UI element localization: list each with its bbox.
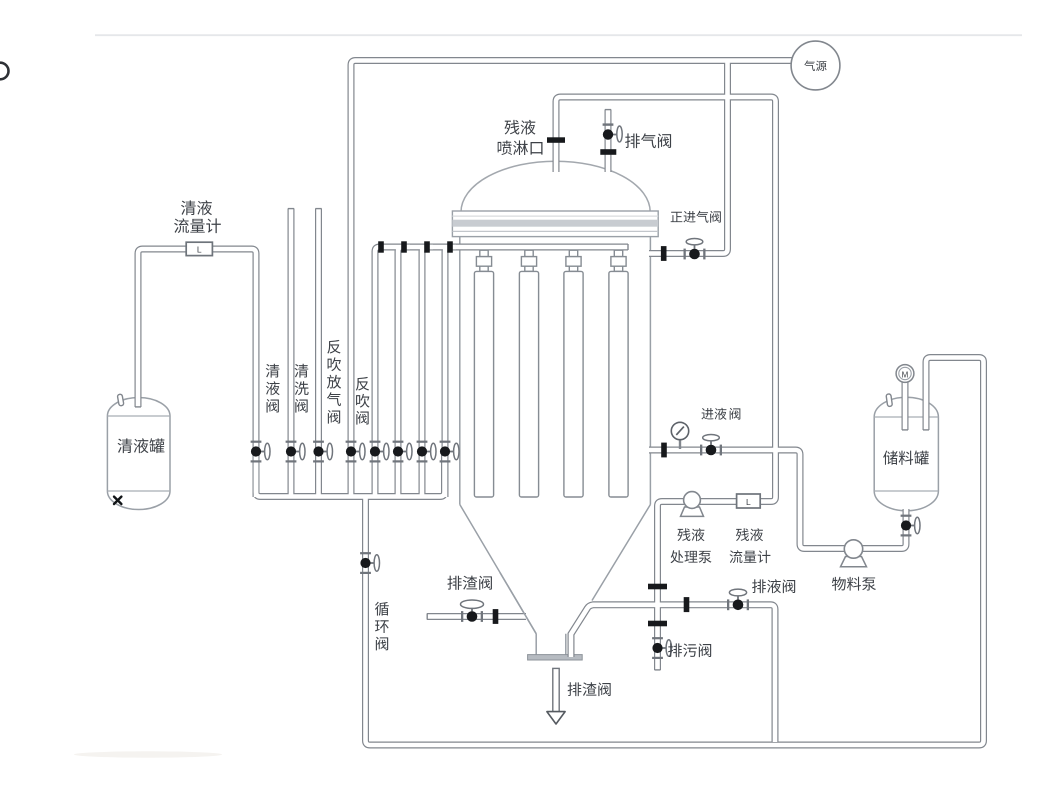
label char 气 (804, 60, 815, 71)
label char 液 (715, 408, 727, 420)
wire: left slag valve pipe (bore) (427, 614, 526, 619)
wire: clear-liquid line tank->flowmeter->valve->manifold (138, 249, 256, 497)
wire: riser col7 (422, 247, 433, 497)
valve: vent valve (313, 441, 332, 463)
label char 处 (670, 550, 683, 563)
label char 污 (683, 643, 697, 656)
label char 液 (521, 120, 536, 135)
label char 气 (641, 133, 656, 148)
label char 料 (847, 577, 861, 591)
label char 阀 (267, 399, 279, 413)
x mark in clear tank (114, 497, 121, 504)
label char 流 (174, 218, 189, 233)
label char 阀 (730, 408, 741, 420)
storage tank (chu liao guan) (874, 397, 938, 511)
wire: spray line + upper loop + residue meter run + blowdown drop (bore) (556, 97, 776, 670)
label char 环 (375, 620, 389, 633)
label char 液 (767, 579, 781, 593)
valve: riser valve 8 (440, 441, 459, 463)
wire: wash riser col2 (288, 209, 295, 498)
label char 阀 (658, 134, 671, 149)
label char 气 (696, 211, 708, 223)
label char 进 (683, 211, 695, 223)
label char 泵 (699, 551, 712, 563)
wire: riser col7 (bore) (422, 247, 433, 497)
label char 理 (684, 551, 697, 563)
wire: backflush riser col4 + top gas line (bore) (351, 61, 800, 498)
label char 阀 (710, 211, 721, 223)
wire: feed line to material pump and storage tank (649, 450, 906, 549)
flange tick: header elbow 3 (424, 241, 430, 252)
wire: wash riser col2 (bore) (289, 209, 294, 498)
valve: blowdown valve (652, 637, 671, 659)
flange tick: slag pipe (493, 609, 499, 624)
label char 料 (899, 451, 913, 465)
flow meter: clear liquid flow meter (186, 242, 212, 255)
label char 物 (832, 577, 846, 591)
label char 液 (197, 200, 212, 215)
partial bullet circle at left edge (0, 63, 9, 80)
label char 阀 (356, 411, 368, 425)
label char 罐 (149, 438, 164, 453)
label char 阀 (376, 637, 388, 651)
valve: circulation valve (360, 552, 379, 574)
wire: filter header + riser col5 (375, 247, 628, 497)
clear liquid tank (qing ye guan) (107, 398, 170, 510)
label char 渣 (463, 576, 477, 590)
label char 反 (327, 340, 340, 354)
label char 排 (625, 133, 640, 148)
flange tick: below exhaust valve (600, 149, 616, 155)
label char 清 (181, 200, 196, 215)
flange tick: feed line (661, 443, 667, 458)
pipe end cap: clear tank dip pipe end (135, 406, 141, 408)
pipe end cap: header end (627, 244, 629, 250)
valve: air inlet valve (684, 239, 706, 260)
vessel bottom outlet flange (528, 655, 583, 660)
label char 清 (266, 364, 280, 378)
label char 阀 (328, 410, 340, 424)
svg-text:L: L (746, 497, 751, 507)
main filter vessel dome (461, 161, 650, 212)
label char 清 (118, 438, 133, 453)
label char 排 (752, 579, 766, 593)
valve: wash valve (286, 441, 305, 463)
wire: backflush vent riser col3 (315, 209, 322, 498)
flange tick: drain line (684, 597, 690, 612)
flow meter: residue flow meter (737, 494, 761, 508)
wire: exhaust valve pipe (bore) (606, 110, 611, 173)
label char 清 (295, 364, 309, 378)
pipe end cap: exhaust top (605, 109, 611, 111)
valve: backflush valve (346, 441, 365, 463)
label char 罐 (914, 451, 929, 465)
wire: spray line + upper loop + residue meter run + blowdown drop (556, 97, 776, 670)
main filter vessel flange (452, 211, 658, 237)
label char 源 (816, 61, 827, 71)
wire: backflush vent riser col3 (bore) (316, 209, 321, 498)
gas source circle (791, 41, 840, 90)
label char 残 (736, 528, 749, 541)
agitator motor M (896, 365, 914, 383)
pipe end cap: tank top line end (923, 429, 929, 431)
flange tick: blowdown cross top (648, 584, 667, 590)
label char 计 (758, 550, 771, 563)
bottom slag discharge arrow (547, 668, 565, 724)
label char 洗 (295, 381, 309, 395)
valve: riser valve 7 (417, 441, 436, 463)
wire: storage tank agitator shaft (bore) (903, 381, 908, 430)
label char 放 (327, 375, 341, 389)
candle filter element 3 (564, 250, 583, 497)
svg-text:L: L (197, 244, 202, 254)
wire: filter header + riser col5 (bore) (375, 247, 628, 497)
wire: backflush riser col4 + top gas line (351, 61, 800, 498)
pipe end cap: slag pipe left end (426, 613, 428, 619)
flange tick: air inlet line (661, 246, 667, 261)
label char 泵 (862, 577, 876, 590)
wire: riser col8 (bore) (445, 247, 456, 497)
wire: air inlet valve line to top (bore) (649, 60, 728, 254)
candle filter element 4 (609, 250, 628, 497)
label char 喷 (498, 140, 512, 155)
pipe end cap: col3 top (315, 208, 321, 210)
storage tank nozzle (886, 394, 892, 407)
valve: exhaust valve (603, 123, 623, 142)
label char 液 (134, 438, 149, 453)
flange tick: blowdown cross bottom (648, 621, 667, 627)
wire: circulation drop + bottom loop + storage tank top line (366, 358, 984, 746)
valve: storage tank outlet valve (901, 515, 920, 537)
label char 反 (356, 377, 369, 391)
wire: storage tank agitator shaft (902, 381, 909, 430)
pipe end cap: blowdown outlet (655, 669, 661, 671)
label char 阀 (479, 576, 492, 590)
label char 阀 (598, 682, 610, 696)
pressure gauge (671, 422, 688, 449)
flange tick: spray line (547, 137, 565, 143)
label char 阀 (783, 579, 795, 593)
wire: clear-liquid line tank->flowmeter->valve->manifold (bore) (138, 249, 256, 497)
flange tick: header elbow 2 (401, 241, 407, 252)
valve: clear liquid valve (251, 441, 270, 463)
candle filter element 2 (519, 250, 538, 497)
candle filter element 1 (474, 250, 493, 497)
valve: riser valve 6 (393, 441, 412, 463)
main filter vessel cone bottom (460, 505, 651, 655)
label char 残 (505, 120, 520, 135)
pipe end cap: agitator end (902, 429, 908, 431)
pipe end cap: col2 top (288, 208, 294, 210)
valve: feed valve (700, 435, 722, 456)
label char 阀 (699, 643, 711, 657)
faint smudge bottom left (74, 751, 222, 757)
label char 液 (692, 528, 705, 541)
label char 吹 (328, 357, 341, 371)
wire: circulation drop + bottom loop + storage tank top line (bore) (366, 358, 984, 746)
label char 排 (447, 576, 461, 590)
valve: left slag valve (461, 600, 484, 622)
label char 气 (327, 392, 341, 406)
svg-text:M: M (902, 370, 909, 379)
label char 渣 (583, 682, 597, 696)
wire: riser col6 (398, 247, 410, 497)
faint page rule top (95, 34, 1022, 36)
label char 排 (668, 643, 682, 657)
wire: cone drain to drain valve and bottom loop (571, 605, 775, 742)
label char 量 (190, 219, 205, 233)
label char 吹 (356, 394, 369, 408)
wire: cone drain to drain valve and bottom loop (bore) (571, 605, 775, 742)
label char 计 (206, 218, 221, 233)
cone slope overdraw (in front of slag pipe) (500, 573, 536, 634)
label char 口 (531, 142, 543, 155)
label char 液 (266, 381, 280, 395)
wire: air inlet valve line to top (649, 60, 728, 254)
wire: exhaust valve pipe (605, 110, 612, 173)
label char 进 (701, 408, 713, 420)
label char 排 (568, 682, 582, 696)
label char 淋 (513, 140, 528, 155)
wire: valve manifold header (256, 455, 445, 497)
wire: valve manifold header (bore) (256, 455, 445, 497)
valve: riser valve 5 (370, 441, 389, 463)
label char 残 (677, 528, 690, 541)
label char 储 (883, 451, 897, 465)
flange tick: header elbow 4 (447, 241, 453, 252)
wire: feed line to material pump and storage tank (bore) (649, 450, 906, 549)
pump: material pump (841, 540, 867, 567)
wire: riser col6 (bore) (398, 247, 410, 497)
label char 正 (671, 212, 683, 222)
main filter vessel shell walls (460, 237, 651, 505)
flange tick: header elbow 1 (378, 241, 384, 252)
wire: left slag valve pipe (427, 613, 526, 620)
valve: drain valve (727, 589, 749, 610)
label char 液 (750, 528, 763, 541)
pump: residue treatment pump (681, 492, 704, 517)
label char 流 (730, 550, 743, 563)
label char 循 (375, 602, 389, 616)
label char 量 (744, 551, 757, 563)
wire: riser col8 (445, 247, 456, 497)
label char 阀 (295, 399, 307, 413)
clear liquid tank nozzle (117, 394, 124, 406)
